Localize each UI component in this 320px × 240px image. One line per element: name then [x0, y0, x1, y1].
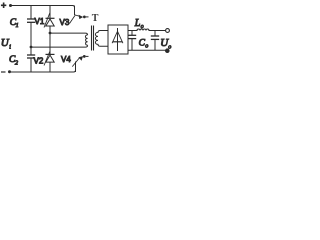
svg-text:V3: V3 — [60, 18, 70, 27]
label Co — [139, 39, 149, 50]
capacitor left of Co label — [128, 31, 136, 51]
plus terminal — [1, 1, 12, 11]
wire capacitor midpoint to primary bottom — [31, 45, 88, 47]
label Uo — [160, 37, 171, 50]
svg-text:V1: V1 — [35, 17, 45, 26]
inductor Lo — [128, 18, 166, 31]
svg-text:1: 1 — [16, 23, 19, 29]
transformer secondary winding — [95, 31, 108, 47]
transistor V4 — [61, 55, 89, 72]
svg-text:i: i — [9, 45, 11, 51]
output terminal top — [166, 29, 170, 33]
svg-text:o: o — [145, 43, 148, 49]
wire top rail — [11, 6, 75, 16]
transformer primary winding — [85, 35, 87, 45]
svg-text:2: 2 — [15, 61, 18, 67]
transformer core — [91, 26, 93, 51]
svg-text:T: T — [92, 13, 99, 24]
wire midpoint to primary top — [50, 33, 88, 35]
rectifier block — [108, 25, 128, 54]
output terminal bottom — [166, 49, 170, 53]
transistor V2 — [34, 33, 55, 72]
rectifier diode — [112, 28, 123, 51]
node leg midpoint — [49, 32, 52, 35]
capacitor C1 — [10, 6, 35, 48]
minus terminal — [1, 70, 11, 73]
svg-text:V4: V4 — [61, 55, 71, 64]
wire bottom rail — [11, 62, 76, 72]
capacitor Co right — [151, 31, 159, 51]
wire bottom output rail — [128, 49, 166, 51]
capacitor C2 — [9, 47, 35, 72]
node C1-C2 midpoint — [30, 46, 33, 49]
transistor V3 — [60, 6, 89, 28]
transistor V1 — [35, 6, 55, 34]
label Ui — [1, 37, 12, 51]
svg-text:+: + — [1, 1, 6, 11]
svg-text:V2: V2 — [34, 57, 44, 66]
svg-text:o: o — [168, 44, 171, 50]
